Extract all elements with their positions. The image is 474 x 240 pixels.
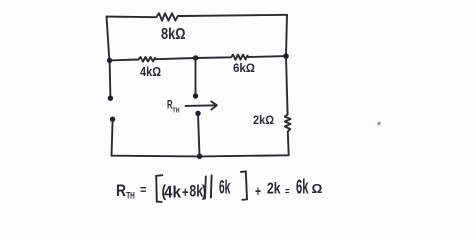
svg-text:=: = — [140, 182, 147, 197]
svg-text:Ω: Ω — [312, 181, 323, 196]
svg-text:8kΩ: 8kΩ — [161, 26, 186, 43]
svg-text:4k: 4k — [164, 183, 181, 202]
svg-text:R: R — [116, 181, 126, 200]
svg-text:+: + — [182, 184, 189, 201]
svg-text:6k: 6k — [296, 177, 309, 199]
svg-text:2kΩ: 2kΩ — [253, 115, 274, 127]
svg-text:4kΩ: 4kΩ — [140, 64, 161, 79]
svg-text:6kΩ: 6kΩ — [233, 63, 255, 75]
svg-text:TH: TH — [126, 191, 135, 201]
svg-text:TH: TH — [173, 108, 180, 115]
svg-text:6k: 6k — [219, 178, 231, 199]
svg-text:+: + — [255, 183, 261, 200]
svg-text:2k: 2k — [267, 180, 281, 197]
svg-text:=: = — [285, 187, 290, 198]
